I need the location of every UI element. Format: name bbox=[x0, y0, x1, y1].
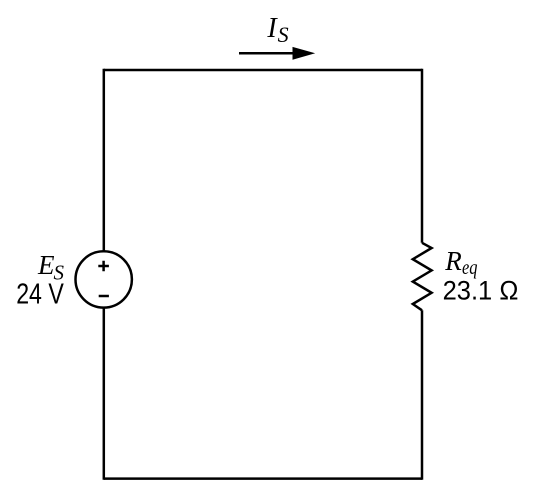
wire top bbox=[104, 69, 422, 72]
svg-text:I: I bbox=[266, 13, 278, 44]
current arrow I_S head bbox=[293, 47, 316, 60]
svg-text:23.1 Ω: 23.1 Ω bbox=[443, 276, 519, 306]
current arrow I_S shaft bbox=[239, 52, 295, 55]
svg-text:S: S bbox=[278, 22, 289, 47]
svg-text:E: E bbox=[37, 250, 55, 280]
minus sign inside source bbox=[99, 295, 109, 298]
plus sign inside source bbox=[98, 261, 109, 272]
voltage source E_S (circle) bbox=[76, 251, 132, 307]
svg-text:R: R bbox=[444, 246, 462, 276]
wire left lower bbox=[103, 308, 106, 480]
wire right lower bbox=[421, 310, 424, 480]
wire bottom bbox=[104, 477, 422, 480]
wire right upper bbox=[421, 69, 424, 243]
svg-text:24 V: 24 V bbox=[16, 279, 64, 311]
wire left upper bbox=[103, 69, 106, 251]
resistor R_eq (zigzag) bbox=[413, 243, 432, 310]
